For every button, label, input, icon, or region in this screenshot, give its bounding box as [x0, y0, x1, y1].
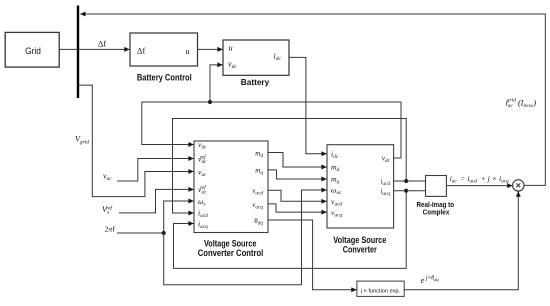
- wire Δf (bus to Battery Control): [79, 48, 130, 50]
- multiplier X1 (circle with x): [513, 180, 524, 191]
- junction 2πf node: [162, 231, 166, 235]
- svg-text:Voltage Source: Voltage Source: [204, 238, 257, 248]
- wire v_acq (VSCC to VSC): [268, 204, 327, 212]
- wire m_d (VSCC to VSC): [268, 153, 327, 168]
- svg-text:Battery Control: Battery Control: [137, 72, 192, 82]
- svg-text:Converter: Converter: [343, 245, 377, 255]
- junction v_dc node: [208, 100, 212, 104]
- block Voltage Source Converter: [327, 145, 394, 228]
- wire v_dc branch to Battery: [210, 65, 223, 102]
- wire V_s_ref to VSCC v_ac_ref input: [119, 189, 194, 213]
- svg-text:Voltage Source: Voltage Source: [333, 235, 386, 245]
- wire 2πf to VSCC ω input: [117, 201, 194, 233]
- block Battery: [223, 40, 289, 75]
- wire i_ac (Real-Imag output to multiplier): [446, 185, 512, 187]
- wire v_ac to VSCC v_dc_ref input: [117, 159, 194, 182]
- wire 2πf to VSC ω_ac input: [164, 190, 327, 285]
- net i_acq feedback (VSC to VSCC and Real-Imag): [174, 191, 407, 269]
- svg-text:Vsref: Vsref: [102, 205, 113, 216]
- svg-text:e j×θdq: e j×θdq: [421, 275, 440, 285]
- svg-text:Δf: Δf: [98, 39, 106, 49]
- svg-text:Vgrid: Vgrid: [75, 135, 89, 146]
- svg-text:Battery: Battery: [241, 77, 270, 87]
- svg-text:iac = iacd + j × iacq: iac = iacd + j × iacq: [450, 174, 509, 184]
- wire v_acd (VSCC to VSC): [268, 190, 327, 201]
- svg-text:Grid: Grid: [25, 46, 41, 57]
- wire i_acd to Real-Imag block: [406, 180, 425, 182]
- wire i_acq to Real-Imag block: [406, 190, 425, 192]
- net i_acd feedback (VSC to VSCC and Real-Imag): [173, 119, 407, 214]
- wire θ_dq (VSCC to exp block): [268, 220, 357, 290]
- svg-text:iacgrid(Ibess): iacgrid(Ibess): [506, 97, 537, 109]
- junction i_acd node: [404, 179, 408, 183]
- wire V_grid (bus to VSCC v_ac input): [79, 85, 194, 197]
- svg-text:Real-Imag to: Real-Imag to: [417, 202, 455, 209]
- svg-text:u: u: [229, 43, 233, 52]
- bus PCC (thick busbar): [77, 6, 79, 99]
- wire e^jθdq (exp block to multiplier): [404, 192, 518, 290]
- svg-text:Converter Control: Converter Control: [198, 248, 264, 258]
- wire Grid to bus: [59, 48, 77, 50]
- wire feedback i_ac_grid (multiplier to bus): [80, 14, 545, 185]
- svg-text:vac: vac: [103, 172, 112, 183]
- wire m_q (VSCC to VSC): [268, 170, 327, 179]
- net v_dc feedback (VSC output to VSCC input): [142, 102, 401, 158]
- block Grid: [5, 32, 59, 67]
- wire u (Battery Control to Battery): [198, 48, 223, 50]
- svg-text:Complex: Complex: [423, 210, 450, 217]
- svg-text:j × function exp.: j × function exp.: [360, 288, 401, 294]
- svg-text:u: u: [186, 47, 190, 56]
- svg-text:Δf: Δf: [137, 46, 145, 56]
- svg-text:2πf: 2πf: [105, 225, 116, 234]
- block Battery Control: [130, 33, 198, 66]
- junction i_acq node: [404, 189, 408, 193]
- wire i_dc (Battery to VSC): [289, 57, 327, 153]
- block Real-Imag to Complex: [426, 176, 447, 197]
- block Voltage Source Converter Control: [194, 141, 268, 233]
- block j x function exp: [357, 281, 404, 296]
